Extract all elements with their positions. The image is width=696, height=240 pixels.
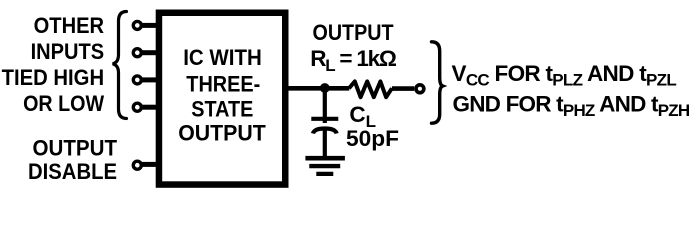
- wire pin 1 to box: [142, 23, 157, 28]
- input pin 1 circle: [133, 21, 141, 29]
- capacitor CL curved plate: [313, 129, 337, 134]
- capacitor CL bottom lead: [323, 129, 327, 158]
- svg-text:DISABLE: DISABLE: [28, 159, 117, 184]
- svg-text:OUTPUT: OUTPUT: [33, 136, 118, 161]
- IC box U1: [159, 13, 285, 185]
- svg-text:TIED HIGH: TIED HIGH: [2, 65, 105, 90]
- svg-text:OR LOW: OR LOW: [23, 91, 105, 116]
- output disable pin circle: [133, 161, 141, 169]
- wire disable pin to box: [142, 162, 157, 167]
- terminal circle (VCC/GND): [416, 85, 424, 93]
- svg-text:50pF: 50pF: [346, 126, 399, 151]
- wire box output to junction: [285, 86, 325, 91]
- input pin 2 circle: [133, 49, 141, 57]
- svg-text:STATE: STATE: [191, 96, 253, 121]
- svg-text:IC WITH: IC WITH: [183, 45, 262, 70]
- ground symbol: [305, 156, 345, 161]
- svg-text:OUTPUT: OUTPUT: [178, 121, 266, 146]
- svg-text:OTHER: OTHER: [34, 13, 105, 38]
- wire resistor to terminal: [392, 86, 414, 91]
- wire pin 4 to box: [142, 105, 157, 110]
- brace right (VCC/GND selector): [432, 42, 443, 123]
- svg-text:OUTPUT: OUTPUT: [313, 20, 394, 45]
- wire junction to resistor: [325, 86, 349, 91]
- wire pin 2 to box: [142, 50, 157, 55]
- node junction dot: [320, 83, 330, 93]
- input pin 4 circle: [133, 103, 141, 111]
- wire pin 3 to box: [142, 77, 157, 82]
- input pin 3 circle: [133, 76, 141, 84]
- capacitor CL top lead: [323, 88, 327, 123]
- svg-text:THREE-: THREE-: [186, 72, 260, 97]
- svg-text:INPUTS: INPUTS: [31, 39, 105, 64]
- capacitor CL top plate: [311, 117, 338, 121]
- svg-text:GND FOR tPHZ AND tPZH: GND FOR tPHZ AND tPZH: [453, 92, 690, 121]
- svg-text:VCC FOR tPLZ AND tPZL: VCC FOR tPLZ AND tPZL: [452, 61, 677, 90]
- resistor RL zigzag: [349, 81, 392, 97]
- svg-text:RL = 1kΩ: RL = 1kΩ: [310, 46, 397, 75]
- brace grouping other inputs: [113, 12, 127, 119]
